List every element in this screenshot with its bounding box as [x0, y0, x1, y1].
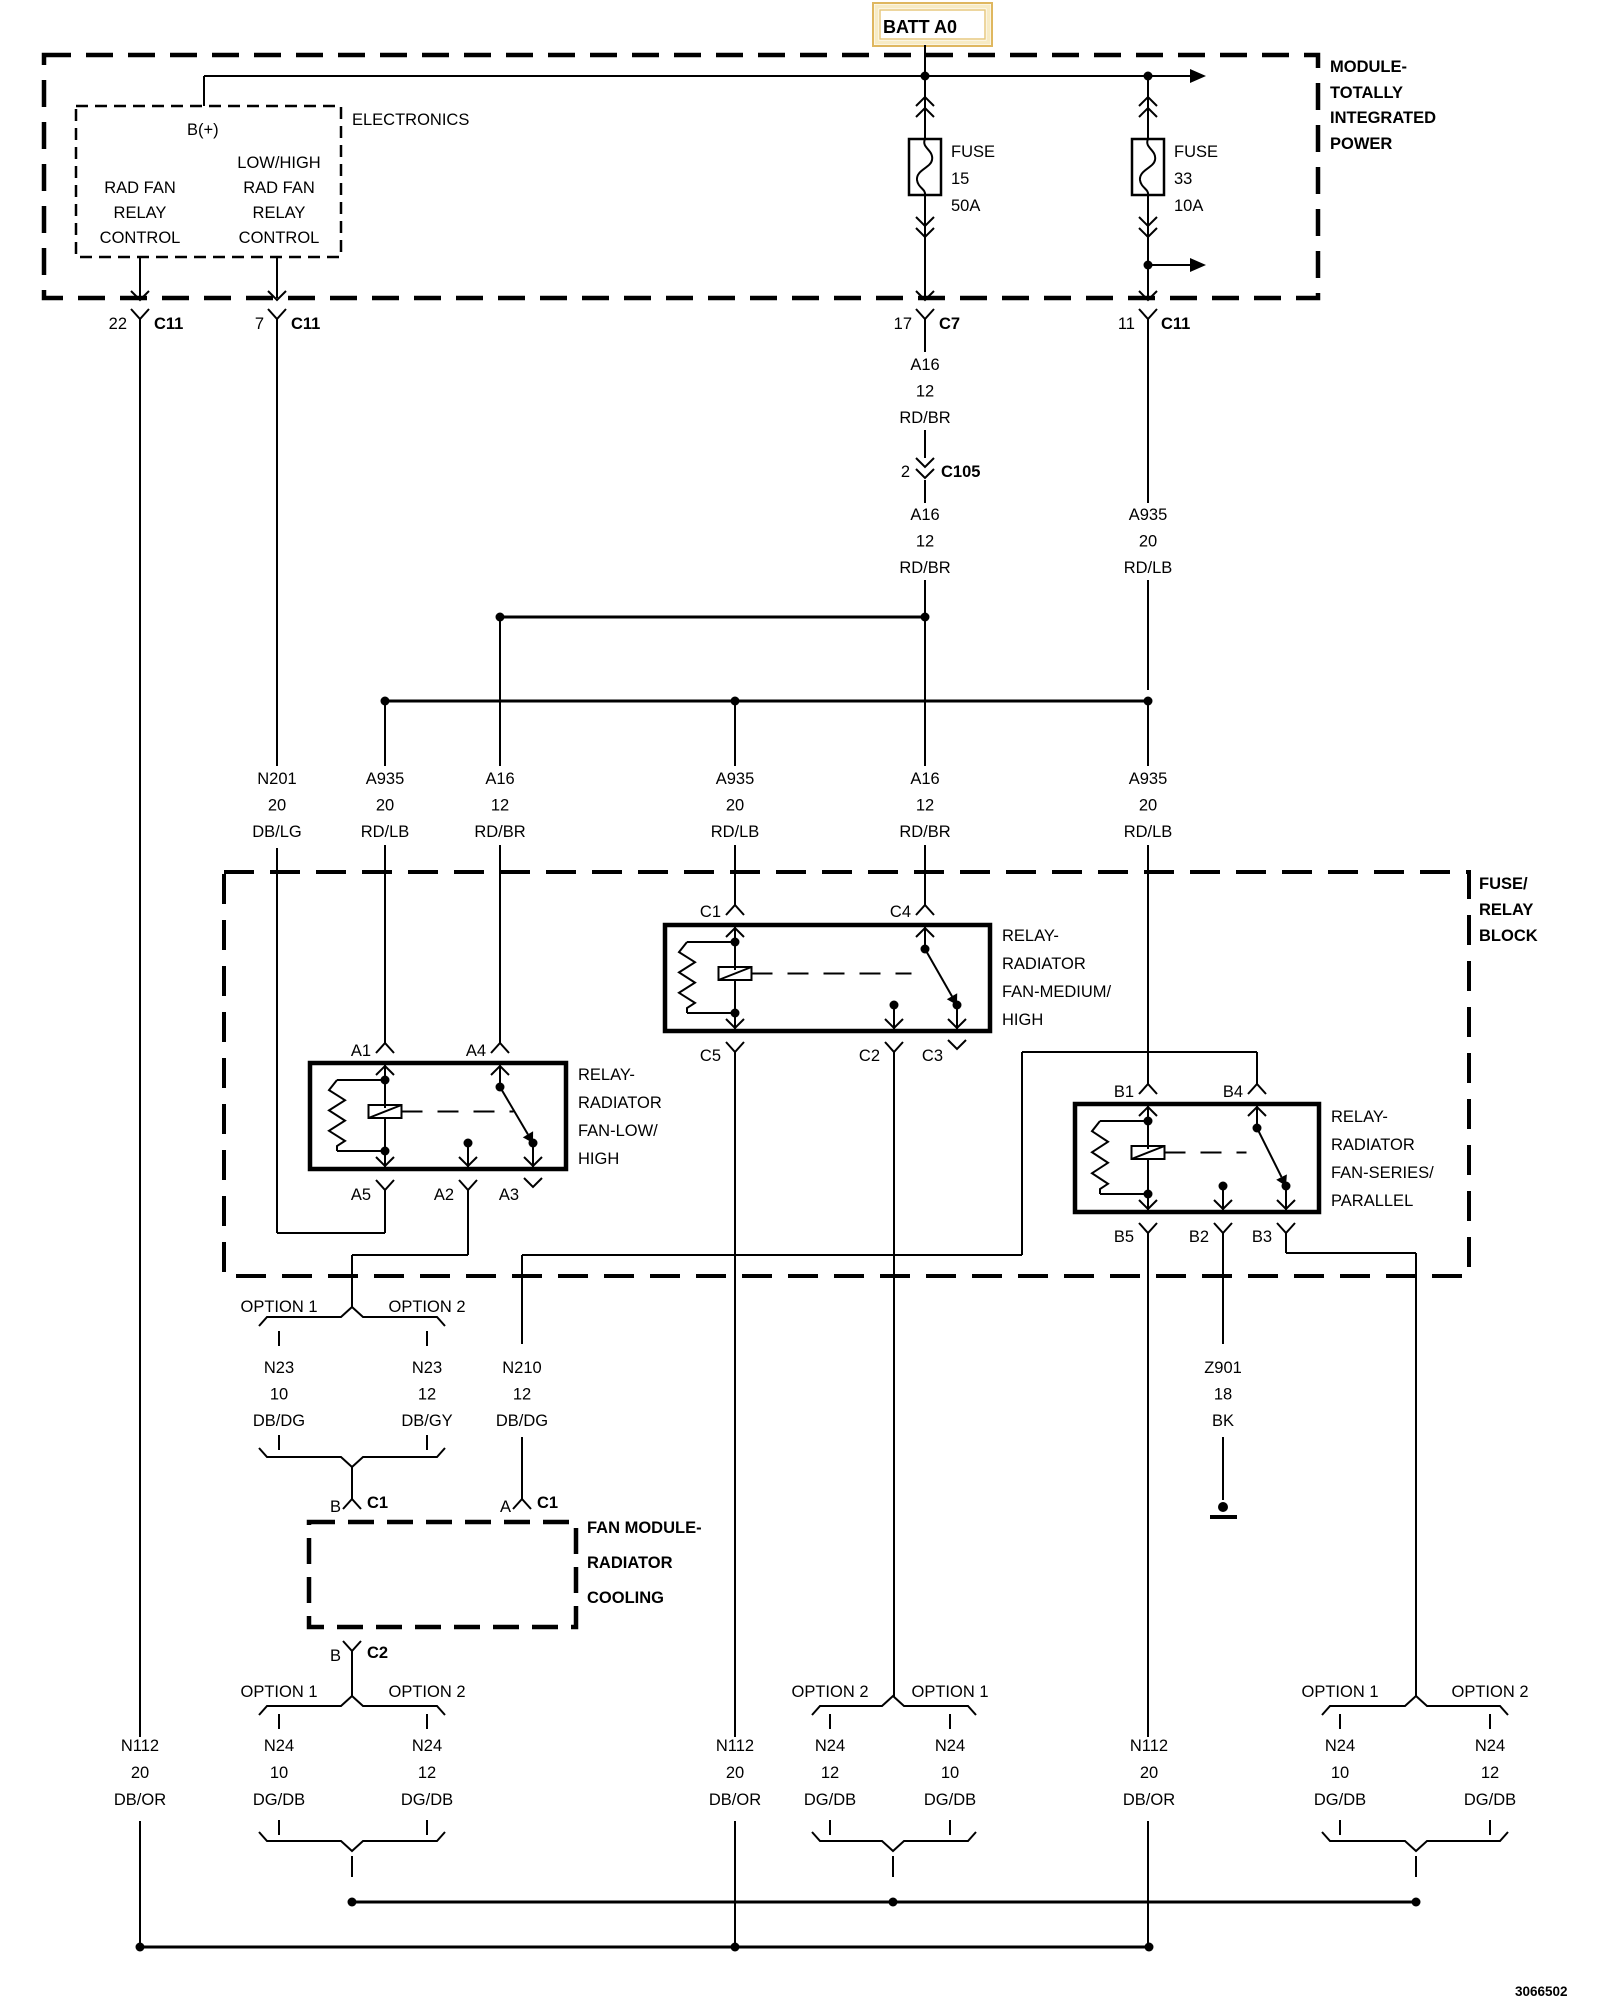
svg-text:FUSE: FUSE — [1174, 143, 1218, 161]
svg-text:12: 12 — [916, 797, 934, 815]
svg-text:12: 12 — [916, 533, 934, 551]
svg-text:20: 20 — [726, 1764, 744, 1782]
wire fan module B to option split — [351, 1651, 353, 1697]
connector B C2 fan module — [343, 1641, 361, 1651]
module-totally integrated power dashed box — [44, 55, 1318, 298]
svg-text:RD/LB: RD/LB — [711, 823, 760, 841]
svg-text:C2: C2 — [859, 1047, 880, 1065]
svg-text:7: 7 — [255, 315, 264, 333]
wire N112 left to bus — [139, 1821, 141, 1947]
splice node A935 right — [1144, 697, 1153, 706]
svg-text:2: 2 — [901, 463, 910, 481]
svg-text:OPTION 2: OPTION 2 — [388, 1298, 465, 1316]
relay radiator fan series/parallel — [1075, 1104, 1319, 1212]
connector pin C1 — [726, 905, 744, 915]
svg-text:CONTROL: CONTROL — [239, 229, 320, 247]
option merge dash left — [278, 1820, 280, 1835]
svg-text:B5: B5 — [1114, 1228, 1134, 1246]
svg-text:OPTION 1: OPTION 1 — [911, 1683, 988, 1701]
svg-text:N24: N24 — [412, 1737, 442, 1755]
wire A935 into A1 — [384, 845, 386, 1043]
connector pair fuse 33 bottom — [1139, 217, 1157, 226]
svg-text:RD/BR: RD/BR — [899, 823, 950, 841]
wire A935 to A1 upper — [384, 701, 386, 766]
battery feed label BATT A0 — [873, 3, 992, 46]
svg-text:C1: C1 — [367, 1494, 388, 1512]
electronics dashed box — [76, 106, 341, 257]
option merge brace — [812, 1832, 976, 1851]
wire A16 into C4 — [924, 845, 926, 905]
svg-text:C2: C2 — [367, 1644, 388, 1662]
svg-text:DG/DB: DG/DB — [1314, 1791, 1366, 1809]
node fuse 33 output branch — [1144, 261, 1153, 270]
svg-text:DB/OR: DB/OR — [709, 1791, 761, 1809]
svg-text:10: 10 — [270, 1386, 288, 1404]
wire A16 upper segment — [924, 340, 926, 352]
svg-text:A935: A935 — [366, 770, 405, 788]
option merge to pin B — [259, 1448, 445, 1467]
svg-text:HIGH: HIGH — [1002, 1011, 1043, 1029]
node battery bus to fuse 33 — [1144, 72, 1153, 81]
option branch dash right — [426, 1714, 428, 1729]
svg-text:DG/DB: DG/DB — [401, 1791, 453, 1809]
wire option merge down — [892, 1856, 894, 1877]
wire B2 to ground upper — [1222, 1232, 1224, 1344]
option merge dash right — [949, 1820, 951, 1835]
node N112 bus right — [1145, 1943, 1154, 1952]
connector pin C5 — [726, 1042, 744, 1052]
wire N210 switch loop — [522, 1254, 1022, 1256]
node N24 bus right — [1412, 1898, 1421, 1907]
svg-text:RELAY: RELAY — [253, 204, 306, 222]
svg-text:A2: A2 — [434, 1186, 454, 1204]
svg-text:DG/DB: DG/DB — [1464, 1791, 1516, 1809]
wire A16 to C4 upper — [924, 617, 926, 766]
wire N210 down segment — [521, 1255, 523, 1344]
ground G — [1218, 1502, 1228, 1512]
svg-text:DB/OR: DB/OR — [114, 1791, 166, 1809]
svg-text:LOW/HIGH: LOW/HIGH — [237, 154, 320, 172]
wire fuse 33 feed — [1147, 76, 1149, 139]
wire C5 to splice N112 mid — [734, 1052, 736, 1737]
svg-text:N112: N112 — [121, 1737, 159, 1755]
svg-text:BK: BK — [1212, 1412, 1234, 1430]
option branch dash left — [1339, 1714, 1341, 1729]
svg-text:RELAY: RELAY — [1479, 901, 1533, 919]
svg-text:20: 20 — [1139, 797, 1157, 815]
wire fuse 15 feed — [924, 76, 926, 139]
svg-text:A16: A16 — [910, 770, 939, 788]
wire N112 right to bus — [1147, 1821, 1149, 1947]
connector 17 C7 — [916, 309, 934, 319]
svg-text:FAN-MEDIUM/: FAN-MEDIUM/ — [1002, 983, 1111, 1001]
svg-text:POWER: POWER — [1330, 135, 1392, 153]
svg-text:DB/DG: DB/DG — [496, 1412, 548, 1430]
wire N201 upper — [276, 340, 278, 766]
wire rad fan relay control to pin 22 — [139, 257, 141, 298]
svg-text:OPTION 1: OPTION 1 — [240, 1298, 317, 1316]
wire branch arrow right — [1148, 264, 1190, 266]
wire low/high rad fan relay control to pin 7 — [276, 257, 278, 298]
svg-text:20: 20 — [268, 797, 286, 815]
svg-text:N24: N24 — [264, 1737, 294, 1755]
option branch dash right — [1489, 1714, 1491, 1729]
svg-text:MODULE-: MODULE- — [1330, 58, 1407, 76]
svg-text:RADIATOR: RADIATOR — [587, 1554, 673, 1572]
svg-text:12: 12 — [916, 383, 934, 401]
svg-text:DG/DB: DG/DB — [804, 1791, 856, 1809]
fan module-radiator cooling dashed box — [309, 1522, 576, 1627]
svg-text:A16: A16 — [910, 356, 939, 374]
svg-text:RD/LB: RD/LB — [1124, 559, 1173, 577]
wire A935 to C1 upper — [734, 701, 736, 766]
svg-text:A: A — [500, 1498, 511, 1516]
svg-text:B: B — [330, 1647, 341, 1665]
arrow battery bus right — [1190, 69, 1206, 83]
svg-text:RD/LB: RD/LB — [361, 823, 410, 841]
connector pin C2 — [885, 1042, 903, 1052]
connector pin B2 — [1214, 1223, 1232, 1233]
option merge brace — [1322, 1832, 1508, 1851]
svg-text:C11: C11 — [1161, 315, 1190, 333]
wire BATT A0 drop — [924, 45, 926, 76]
svg-text:3066502: 3066502 — [1515, 1984, 1568, 1999]
svg-text:A16: A16 — [910, 506, 939, 524]
svg-text:RD/BR: RD/BR — [899, 559, 950, 577]
svg-text:OPTION 2: OPTION 2 — [388, 1683, 465, 1701]
arrow module exit pin 17 — [916, 291, 934, 300]
svg-text:CONTROL: CONTROL — [100, 229, 181, 247]
svg-text:18: 18 — [1214, 1386, 1232, 1404]
svg-text:DG/DB: DG/DB — [924, 1791, 976, 1809]
svg-text:FAN-SERIES/: FAN-SERIES/ — [1331, 1164, 1434, 1182]
wire option merge down — [1415, 1856, 1417, 1877]
svg-text:N23: N23 — [412, 1359, 442, 1377]
connector pair fuse 33 top — [1139, 97, 1157, 106]
svg-text:N24: N24 — [935, 1737, 965, 1755]
svg-text:A935: A935 — [716, 770, 755, 788]
connector 22 C11 — [131, 309, 149, 319]
option branch dash right — [949, 1714, 951, 1729]
svg-text:FUSE/: FUSE/ — [1479, 875, 1528, 893]
svg-text:12: 12 — [1481, 1764, 1499, 1782]
svg-text:33: 33 — [1174, 170, 1192, 188]
svg-text:12: 12 — [513, 1386, 531, 1404]
wire fuse 15 output to pin 17 — [924, 195, 926, 298]
connector pin C3 — [948, 1040, 966, 1049]
svg-text:A1: A1 — [351, 1042, 371, 1060]
svg-text:A5: A5 — [351, 1186, 371, 1204]
svg-text:RD/BR: RD/BR — [474, 823, 525, 841]
svg-text:20: 20 — [726, 797, 744, 815]
svg-text:20: 20 — [1139, 533, 1157, 551]
svg-text:C7: C7 — [939, 315, 960, 333]
wire A935 right col upper — [1147, 340, 1149, 503]
connector pin B4 — [1248, 1084, 1266, 1094]
splice node A935 mid — [731, 697, 740, 706]
connector 7 C11 — [268, 309, 286, 319]
relay radiator fan low/high — [310, 1063, 566, 1169]
svg-text:A935: A935 — [1129, 770, 1168, 788]
svg-text:C4: C4 — [890, 903, 911, 921]
wire N201 to A5 — [276, 848, 278, 1233]
wire option merge down — [351, 1856, 353, 1877]
svg-text:B3: B3 — [1252, 1228, 1272, 1246]
svg-text:TOTALLY: TOTALLY — [1330, 84, 1403, 102]
option branch dash left — [829, 1714, 831, 1729]
svg-text:12: 12 — [418, 1764, 436, 1782]
svg-text:N201: N201 — [257, 770, 296, 788]
svg-text:BLOCK: BLOCK — [1479, 927, 1538, 945]
svg-text:C11: C11 — [154, 315, 183, 333]
svg-text:11: 11 — [1118, 315, 1135, 333]
svg-text:RAD FAN: RAD FAN — [243, 179, 315, 197]
svg-text:B2: B2 — [1189, 1228, 1209, 1246]
svg-text:A935: A935 — [1129, 506, 1168, 524]
option 2 merge dash — [426, 1435, 428, 1450]
option merge dash left — [1339, 1820, 1341, 1835]
svg-text:OPTION 1: OPTION 1 — [1301, 1683, 1378, 1701]
fuse 33 10A — [1132, 139, 1164, 195]
option merge brace — [259, 1832, 445, 1851]
wire B5 to splice N112 right — [1147, 1232, 1149, 1737]
wire A16 below C105 — [924, 480, 926, 503]
wire A16 to splice — [924, 580, 926, 617]
connector pin C4 — [916, 905, 934, 915]
node N112 bus middle — [731, 1943, 740, 1952]
connector pin B1 — [1139, 1084, 1157, 1094]
svg-text:20: 20 — [131, 1764, 149, 1782]
svg-text:A4: A4 — [466, 1042, 486, 1060]
bus wire A935 splice horizontal — [385, 700, 1148, 703]
bus wire N112 ground — [140, 1946, 1149, 1949]
svg-text:RADIATOR: RADIATOR — [578, 1094, 662, 1112]
node N112 bus left — [136, 1943, 145, 1952]
svg-text:C3: C3 — [922, 1047, 943, 1065]
node N24 bus middle — [889, 1898, 898, 1907]
svg-text:OPTION 2: OPTION 2 — [1451, 1683, 1528, 1701]
svg-text:INTEGRATED: INTEGRATED — [1330, 109, 1436, 127]
arrow module exit pin 22 — [131, 291, 149, 300]
svg-text:OPTION 2: OPTION 2 — [791, 1683, 868, 1701]
svg-text:C5: C5 — [700, 1047, 721, 1065]
option 1 branch dash — [278, 1331, 280, 1346]
bus wire A16 splice horizontal — [500, 616, 925, 619]
svg-text:B: B — [330, 1498, 341, 1516]
svg-text:10: 10 — [941, 1764, 959, 1782]
node N24 bus left — [348, 1898, 357, 1907]
svg-text:FAN-LOW/: FAN-LOW/ — [578, 1122, 658, 1140]
svg-text:N24: N24 — [815, 1737, 845, 1755]
svg-text:B4: B4 — [1223, 1083, 1243, 1101]
connector pin A1 — [376, 1043, 394, 1053]
svg-text:FAN MODULE-: FAN MODULE- — [587, 1519, 702, 1537]
connector pin B3 — [1277, 1223, 1295, 1233]
arrow module exit pin 11 — [1139, 291, 1157, 300]
svg-text:C105: C105 — [941, 463, 980, 481]
svg-text:C11: C11 — [291, 315, 320, 333]
svg-text:HIGH: HIGH — [578, 1150, 619, 1168]
fuse/relay block dashed box — [224, 872, 1469, 1276]
wire N112 mid to bus — [734, 1821, 736, 1947]
svg-text:12: 12 — [821, 1764, 839, 1782]
svg-text:OPTION 1: OPTION 1 — [240, 1683, 317, 1701]
svg-text:N24: N24 — [1475, 1737, 1505, 1755]
wire A935 to B1 upper — [1147, 701, 1149, 766]
svg-text:10: 10 — [270, 1764, 288, 1782]
svg-text:BATT A0: BATT A0 — [883, 17, 957, 37]
splice node A16 left — [496, 613, 505, 622]
wire A16 into C105 — [924, 430, 926, 458]
svg-text:N24: N24 — [1325, 1737, 1355, 1755]
connector pair fuse 15 top — [916, 97, 934, 106]
option 2 branch dash — [426, 1331, 428, 1346]
option merge dash right — [1489, 1820, 1491, 1835]
svg-text:N23: N23 — [264, 1359, 294, 1377]
svg-text:RELAY: RELAY — [114, 204, 167, 222]
svg-text:12: 12 — [418, 1386, 436, 1404]
svg-text:B(+): B(+) — [187, 121, 219, 139]
svg-text:FUSE: FUSE — [951, 143, 995, 161]
svg-text:RAD FAN: RAD FAN — [104, 179, 176, 197]
wire B3 to option split right — [1285, 1232, 1287, 1253]
svg-text:RD/LB: RD/LB — [1124, 823, 1173, 841]
connector pin A2 — [459, 1180, 477, 1190]
inline connector 2 C105 — [916, 458, 934, 467]
svg-text:N112: N112 — [716, 1737, 754, 1755]
arrow branch right — [1190, 258, 1206, 272]
svg-text:12: 12 — [491, 797, 509, 815]
wire A935 right col to splice — [1147, 580, 1149, 690]
svg-text:ELECTRONICS: ELECTRONICS — [352, 111, 469, 129]
bus wire N24 ground options — [352, 1901, 1416, 1904]
wire A2 to fan option split — [467, 1190, 469, 1255]
svg-text:DB/DG: DB/DG — [253, 1412, 305, 1430]
svg-text:22: 22 — [109, 315, 127, 333]
wire N210 to pin A — [521, 1437, 523, 1499]
svg-text:Z901: Z901 — [1204, 1359, 1242, 1377]
svg-text:B1: B1 — [1114, 1083, 1134, 1101]
wire Z901 to ground — [1222, 1437, 1224, 1500]
svg-text:DG/DB: DG/DB — [253, 1791, 305, 1809]
connector pin A3 — [524, 1178, 542, 1187]
connector pin B5 — [1139, 1223, 1157, 1233]
option 1 merge dash — [278, 1435, 280, 1450]
svg-text:RADIATOR: RADIATOR — [1002, 955, 1086, 973]
wire A935 into B1 — [1147, 845, 1149, 1084]
svg-text:RADIATOR: RADIATOR — [1331, 1136, 1415, 1154]
svg-text:RELAY-: RELAY- — [1331, 1108, 1388, 1126]
svg-text:DB/OR: DB/OR — [1123, 1791, 1175, 1809]
svg-text:RD/BR: RD/BR — [899, 409, 950, 427]
svg-text:RELAY-: RELAY- — [1002, 927, 1059, 945]
svg-text:A16: A16 — [485, 770, 514, 788]
connector A C1 fan module — [513, 1499, 531, 1509]
relay radiator fan medium/high — [665, 925, 990, 1031]
svg-text:10: 10 — [1331, 1764, 1349, 1782]
svg-text:17: 17 — [894, 315, 912, 333]
svg-text:DB/LG: DB/LG — [252, 823, 302, 841]
svg-text:COOLING: COOLING — [587, 1589, 664, 1607]
wire C2 to option split middle — [893, 1052, 895, 1697]
connector B C1 fan module — [343, 1499, 361, 1509]
svg-text:A3: A3 — [499, 1186, 519, 1204]
wire A935 into C1 — [734, 845, 736, 905]
option merge dash right — [426, 1820, 428, 1835]
connector 11 C11 — [1139, 309, 1157, 319]
splice node A16 — [921, 613, 930, 622]
svg-text:RELAY-: RELAY- — [578, 1066, 635, 1084]
wire fuse 33 output to pin 11 — [1147, 195, 1149, 298]
svg-text:20: 20 — [376, 797, 394, 815]
svg-text:15: 15 — [951, 170, 969, 188]
connector pin A4 — [491, 1043, 509, 1053]
svg-text:PARALLEL: PARALLEL — [1331, 1192, 1413, 1210]
option merge dash left — [829, 1820, 831, 1835]
svg-text:DB/GY: DB/GY — [401, 1412, 452, 1430]
wire A16 into A4 — [499, 845, 501, 1043]
wire A16 to A4 upper — [499, 617, 501, 766]
fuse 15 50A — [909, 139, 941, 195]
node battery bus to fuse 15 — [921, 72, 930, 81]
svg-text:10A: 10A — [1174, 197, 1203, 215]
option branch dash left — [278, 1714, 280, 1729]
svg-text:N112: N112 — [1130, 1737, 1168, 1755]
connector pair fuse 15 bottom — [916, 217, 934, 226]
svg-text:C1: C1 — [700, 903, 721, 921]
svg-text:C1: C1 — [537, 1494, 558, 1512]
splice node A935 left — [381, 697, 390, 706]
svg-text:50A: 50A — [951, 197, 980, 215]
wire pin22 N112 left — [139, 340, 141, 1737]
arrow module exit pin 7 — [268, 291, 286, 300]
svg-text:20: 20 — [1140, 1764, 1158, 1782]
svg-text:N210: N210 — [502, 1359, 541, 1377]
connector pin A5 — [376, 1180, 394, 1190]
wire B(+) feed to battery bus — [203, 76, 205, 106]
